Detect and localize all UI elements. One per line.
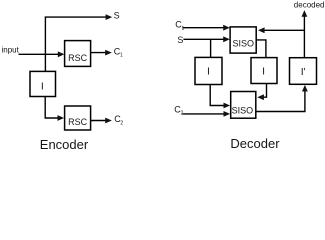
wire: C1 output line from RSC1 — [91, 52, 107, 54]
svg-text:S: S — [114, 11, 120, 21]
wire: interleaver to RSC2 elbow — [45, 97, 59, 119]
svg-text:Decoder: Decoder — [230, 136, 280, 151]
svg-text:I': I' — [301, 66, 306, 78]
wire: feedback from riser into SISO1 — [263, 29, 305, 31]
svg-text:S: S — [177, 35, 183, 45]
svg-text:1: 1 — [120, 53, 123, 59]
wire: SISO1 output to middle interleaver — [256, 40, 266, 58]
wire: C2 output line from RSC2 — [91, 120, 107, 122]
wire: S branch down to interleaver — [210, 39, 212, 57]
wire: middle interleaver down to SISO2 — [262, 84, 267, 98]
wire: left interleaver to SISO2 elbow — [210, 85, 225, 106]
svg-text:RSC: RSC — [68, 53, 88, 63]
svg-text:SISO: SISO — [232, 105, 254, 115]
wire: input line into RSC1 — [19, 53, 60, 55]
SISO decoder block U1 (top) — [230, 27, 256, 53]
svg-text:I: I — [207, 66, 210, 78]
wire: SISO2 output to inverse interleaver — [256, 91, 305, 112]
interleaver I (decoder left) — [195, 57, 222, 84]
wire: decoder C2 input line — [182, 113, 225, 115]
svg-text:SISO: SISO — [232, 39, 254, 49]
svg-text:2: 2 — [120, 121, 123, 127]
svg-text:1: 1 — [182, 26, 185, 32]
SISO decoder block U2 (bottom) — [231, 92, 256, 119]
wire: encoder S output line — [45, 16, 107, 18]
svg-text:Encoder: Encoder — [40, 137, 89, 152]
svg-text:RSC: RSC — [68, 117, 88, 127]
wire: decoder S input line — [183, 38, 225, 40]
wire: encoder S branch vertical — [44, 17, 46, 71]
RSC encoder block R1 (top) — [65, 41, 91, 67]
interleaver I (decoder middle) — [251, 58, 277, 84]
wire: decoder C1 input line — [182, 27, 225, 29]
interleaver I (encoder) — [30, 71, 56, 96]
RSC encoder block R2 (bottom) — [65, 106, 91, 130]
svg-text:decoded: decoded — [294, 0, 325, 9]
svg-text:input: input — [2, 45, 20, 54]
wire: riser from I' up to decoded output — [303, 16, 305, 58]
inverse interleaver I' — [290, 58, 317, 85]
svg-text:I: I — [41, 80, 44, 92]
svg-text:I: I — [262, 66, 265, 78]
